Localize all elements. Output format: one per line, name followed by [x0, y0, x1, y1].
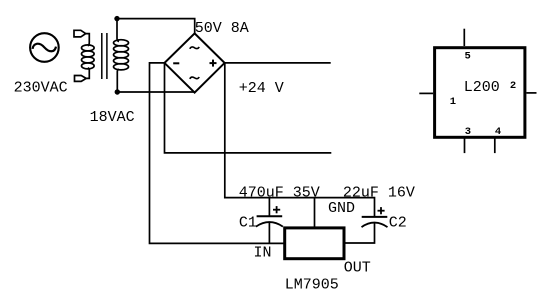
svg-text:GND: GND — [328, 200, 355, 217]
svg-text:OUT: OUT — [344, 260, 371, 277]
svg-text:50V 8A: 50V 8A — [195, 20, 249, 37]
svg-text:470uF 35V: 470uF 35V — [239, 184, 320, 201]
svg-text:22uF 16V: 22uF 16V — [343, 184, 415, 201]
svg-text:2: 2 — [510, 80, 516, 92]
svg-text:3: 3 — [465, 126, 471, 138]
svg-text:IN: IN — [254, 244, 272, 261]
svg-text:4: 4 — [495, 126, 501, 138]
svg-text:L200: L200 — [464, 79, 500, 96]
svg-text:C1: C1 — [239, 215, 257, 232]
svg-text:5: 5 — [464, 51, 470, 63]
svg-text:+24 V: +24 V — [239, 80, 284, 97]
svg-text:C2: C2 — [389, 214, 407, 231]
svg-text:230VAC: 230VAC — [14, 80, 68, 97]
svg-text:LM7905: LM7905 — [285, 276, 339, 293]
svg-text:18VAC: 18VAC — [90, 109, 135, 126]
svg-text:1: 1 — [450, 96, 456, 108]
